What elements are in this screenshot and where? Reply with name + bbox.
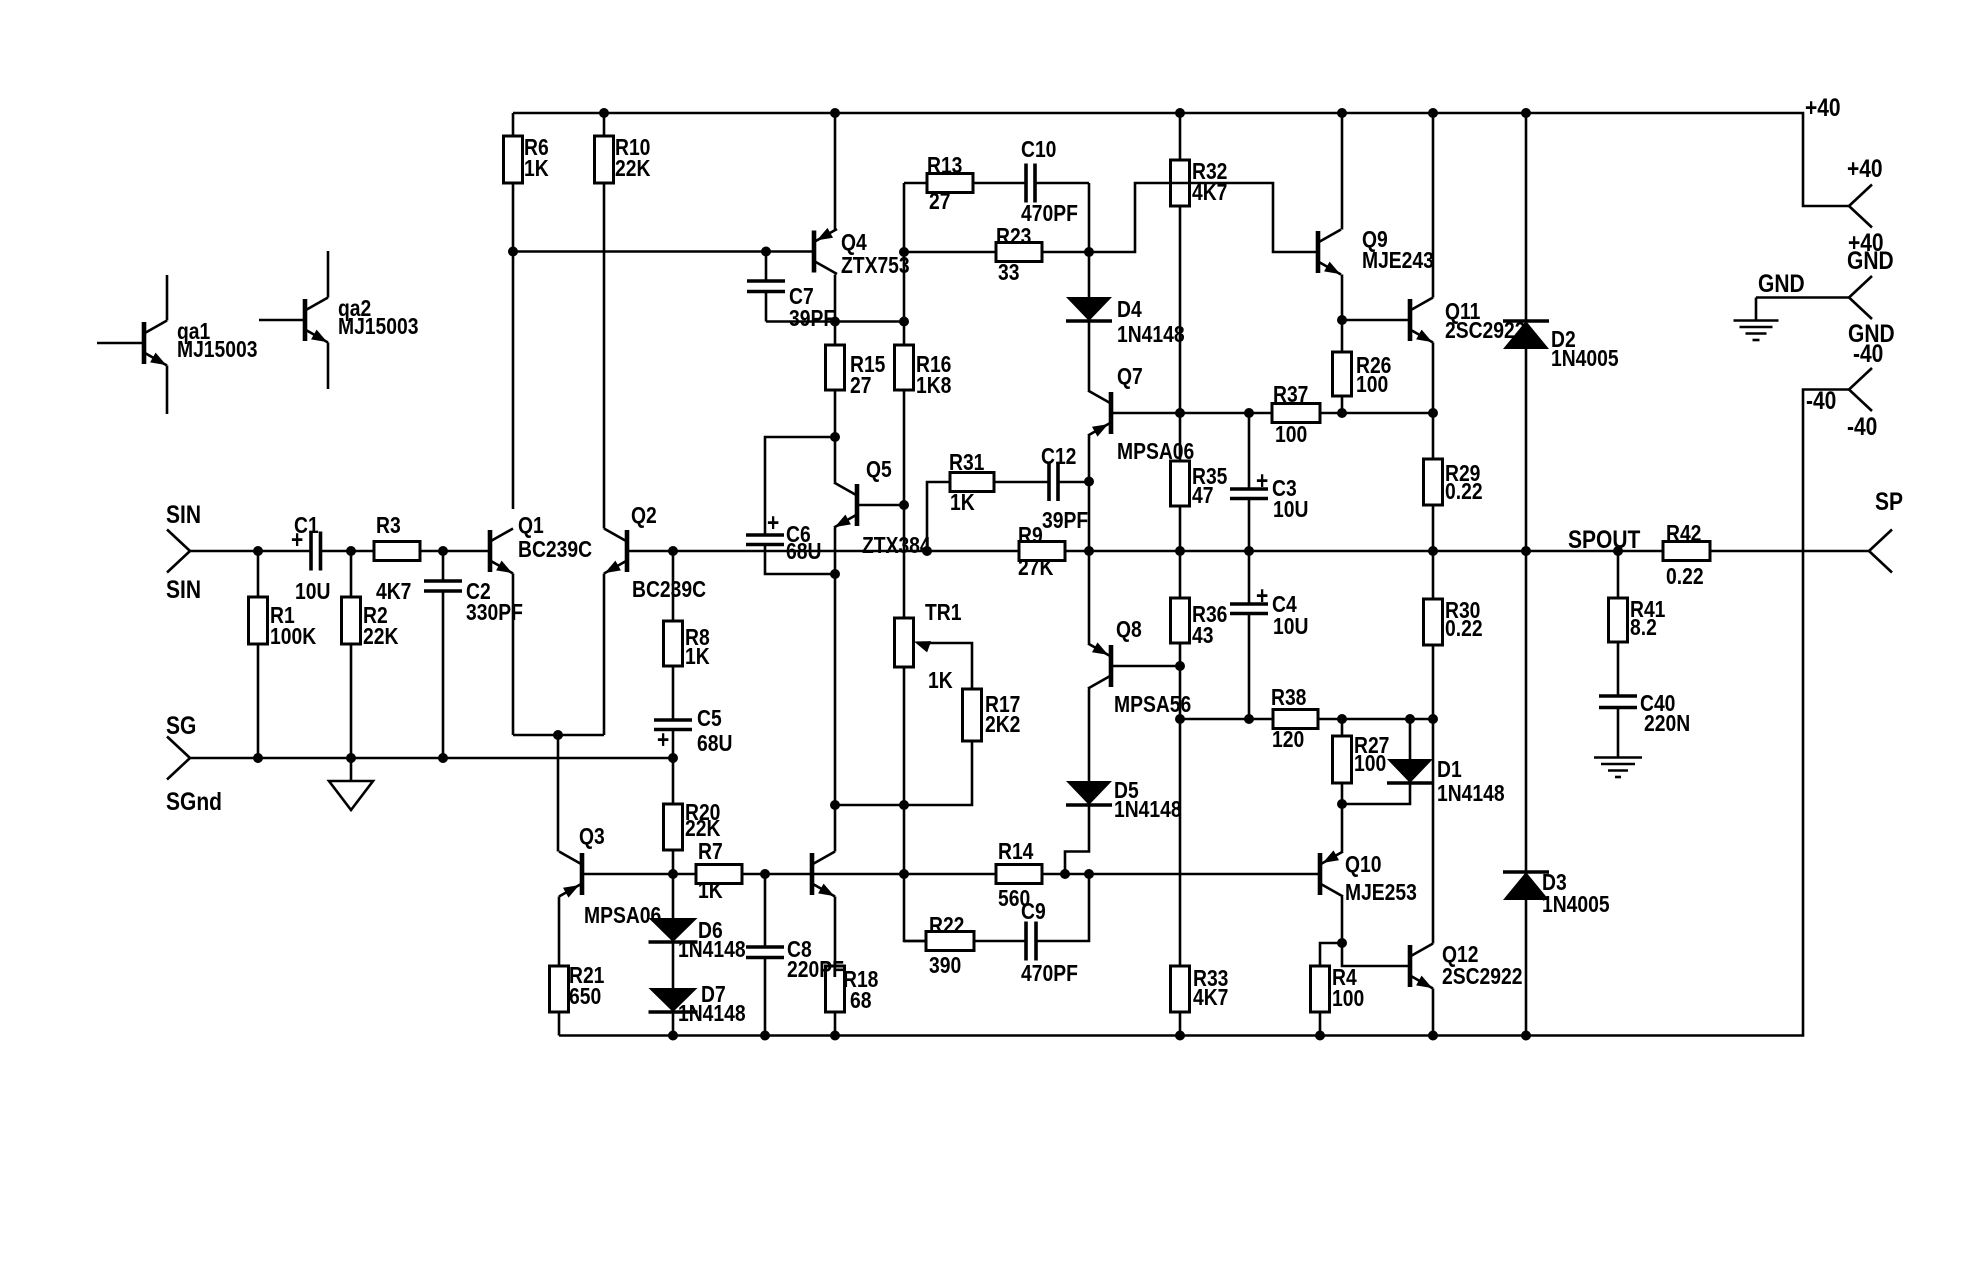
wire C8 bottom: [764, 958, 767, 1036]
wire R30 chain: [1432, 551, 1435, 719]
transistor qa2: [303, 299, 308, 341]
capacitor C9: [1024, 922, 1028, 961]
wire Q11 base line: [1342, 319, 1410, 322]
wire C6 top jog: [765, 437, 835, 535]
junction (766,251.5): [761, 247, 771, 257]
junction (258,758): [253, 753, 263, 763]
svg-text:100: 100: [1275, 423, 1307, 448]
junction (904,874): [899, 869, 909, 879]
junction (604,113): [599, 108, 609, 118]
junction (1089,252): [1084, 247, 1094, 257]
connector SIN: [167, 530, 190, 552]
transistor Q4: [812, 231, 817, 273]
junction (1320,1035.5): [1315, 1031, 1325, 1041]
transistor Q7: [1109, 392, 1114, 434]
svg-text:GND: GND: [1847, 246, 1894, 274]
svg-text:100K: 100K: [270, 625, 317, 650]
diode D4: [1066, 297, 1112, 321]
resistor R17: [963, 689, 982, 741]
wire signal ground stub: [350, 758, 353, 781]
svg-text:27: 27: [850, 374, 871, 399]
wire R10 bottom to Q2 collector: [603, 183, 606, 529]
resistor R7: [696, 865, 742, 884]
resistor R23: [996, 243, 1042, 262]
wire Q11 collector stub: [1432, 113, 1435, 298]
wire Q4 collector stub: [834, 275, 837, 322]
svg-text:0.22: 0.22: [1666, 565, 1704, 590]
svg-text:+: +: [657, 725, 669, 753]
wire R8 chain: [672, 551, 675, 720]
junction (1180,1035.5): [1175, 1031, 1185, 1041]
wire R1: [257, 551, 260, 758]
svg-text:GND: GND: [1758, 269, 1805, 297]
wire R4 jog: [1320, 943, 1342, 966]
trimmer TR1 wiper arrow: [914, 641, 931, 652]
svg-text:SIN: SIN: [166, 500, 201, 528]
connector -40: [1849, 368, 1872, 390]
junction (1180,719): [1175, 714, 1185, 724]
capacitor C3: [1230, 487, 1268, 491]
wire R10 top stub: [603, 113, 606, 136]
svg-text:1N4005: 1N4005: [1551, 347, 1619, 372]
junction (1526,113): [1521, 108, 1531, 118]
wire C10 right riser to D4: [1088, 183, 1091, 297]
svg-text:Q10: Q10: [1345, 853, 1381, 878]
svg-text:100: 100: [1356, 373, 1388, 398]
svg-text:C10: C10: [1021, 138, 1056, 163]
wire Q3 emitter to R21: [558, 897, 561, 967]
svg-text:C12: C12: [1041, 445, 1076, 470]
junction (673,1035.5): [668, 1031, 678, 1041]
transistor Q6: [810, 853, 815, 895]
wire R4 bottom: [1319, 1012, 1322, 1036]
capacitor C8: [746, 945, 784, 949]
svg-text:0.22: 0.22: [1445, 480, 1483, 505]
junction (835,437): [830, 432, 840, 442]
resistor R31: [950, 473, 994, 492]
wire Q7 base / R37 line: [1111, 412, 1433, 415]
resistor R14: [996, 865, 1042, 884]
svg-text:1N4148: 1N4148: [678, 1002, 746, 1027]
svg-text:R31: R31: [949, 451, 985, 476]
svg-text:8.2: 8.2: [1630, 616, 1657, 641]
wire VAS node line: [766, 320, 904, 323]
wire C2 top: [442, 551, 445, 581]
svg-text:220PF: 220PF: [787, 958, 844, 983]
resistor R22: [926, 932, 974, 951]
junction (673,551): [668, 546, 678, 556]
wire Q9 collector stub: [1341, 113, 1344, 230]
resistor R18: [826, 966, 845, 1012]
svg-text:+: +: [1256, 581, 1268, 609]
svg-text:TR1: TR1: [925, 601, 962, 626]
wire C3 bottom: [1248, 499, 1251, 552]
wire Q4 emitter stub: [834, 113, 837, 230]
wire R20 chain: [672, 758, 675, 874]
junction (1342,943): [1337, 938, 1347, 948]
svg-text:SGnd: SGnd: [166, 787, 222, 815]
wire D4 cathode to Q7 collector: [1088, 322, 1091, 391]
wire R27 chain: [1341, 719, 1344, 804]
wire C7 bottom stub: [765, 292, 768, 322]
svg-text:MPSA06: MPSA06: [584, 904, 661, 929]
wire qa1 collector: [166, 275, 169, 321]
junction (1433,551): [1428, 546, 1438, 556]
resistor R21: [550, 966, 569, 1012]
wire GND stub: [1756, 296, 1849, 299]
svg-text:68U: 68U: [697, 732, 732, 757]
svg-text:22K: 22K: [615, 157, 651, 182]
svg-text:1K: 1K: [685, 645, 710, 670]
svg-text:-40: -40: [1853, 339, 1883, 367]
connector GND: [1849, 276, 1872, 298]
resistor R9: [1019, 542, 1065, 561]
resistor R13: [927, 174, 973, 193]
svg-text:22K: 22K: [363, 625, 399, 650]
wire GND down stub: [1755, 298, 1758, 321]
transistor Q12: [1408, 945, 1413, 987]
junction (904,321.5): [899, 317, 909, 327]
wire R21 bottom: [558, 1012, 561, 1036]
connector SP: [1869, 530, 1892, 552]
wire C4 top: [1248, 551, 1251, 604]
junction (443,758): [438, 753, 448, 763]
wire Q12 emitter stub: [1432, 989, 1435, 1036]
svg-text:MJ15003: MJ15003: [177, 338, 258, 363]
svg-text:4K7: 4K7: [376, 580, 411, 605]
junction (904,805): [899, 800, 909, 810]
svg-text:22K: 22K: [685, 817, 721, 842]
svg-text:R3: R3: [376, 514, 401, 539]
svg-text:650: 650: [569, 985, 601, 1010]
wire D2 to D3: [1525, 348, 1528, 872]
capacitor C12: [1047, 462, 1051, 501]
wire Q5 emitter to Q6 collector: [834, 528, 837, 852]
wire R18 bottom: [834, 1012, 837, 1036]
ground symbol GND: [1734, 319, 1779, 322]
wire C12 to Q7 emitter: [1058, 481, 1089, 484]
wire Q1 collector stub: [512, 252, 515, 510]
svg-text:R22: R22: [929, 914, 964, 939]
resistor R37: [1272, 404, 1320, 423]
junction (1089,551): [1084, 546, 1094, 556]
wire qa2 collector: [327, 251, 330, 298]
svg-text:2SC2922: 2SC2922: [1442, 965, 1522, 990]
diode D2: [1503, 319, 1549, 323]
wire Q7 emitter stub: [1088, 436, 1091, 552]
svg-text:R9: R9: [1018, 524, 1043, 549]
resistor R36: [1171, 598, 1190, 643]
wire R16 bottom to TR1: [903, 390, 906, 618]
svg-text:4K7: 4K7: [1193, 986, 1228, 1011]
diode D1: [1387, 759, 1433, 783]
svg-text:43: 43: [1192, 624, 1214, 649]
svg-text:4K7: 4K7: [1192, 181, 1227, 206]
wire Q6 emitter to R18: [834, 897, 837, 967]
wire R2: [350, 551, 353, 758]
junction (1249,551): [1244, 546, 1254, 556]
svg-text:1K8: 1K8: [916, 374, 952, 399]
wire TR1 wiper: [917, 643, 972, 689]
junction (1180,666): [1175, 661, 1185, 671]
transistor Q1: [488, 530, 493, 572]
connector +40: [1849, 185, 1872, 207]
svg-text:47: 47: [1192, 484, 1213, 509]
svg-text:-40: -40: [1806, 386, 1836, 414]
svg-text:Q1: Q1: [518, 514, 544, 539]
svg-text:+: +: [1256, 466, 1268, 494]
wire R22 C9 line left: [904, 940, 1026, 943]
transistor Q5: [855, 484, 860, 526]
connector SG: [167, 737, 190, 759]
svg-text:R14: R14: [998, 840, 1034, 865]
junction (904,252): [899, 247, 909, 257]
svg-text:MPSA06: MPSA06: [1117, 440, 1194, 465]
wire Q1 emitter: [512, 574, 515, 736]
svg-text:D4: D4: [1117, 298, 1142, 323]
wire R41 branch: [1617, 551, 1620, 598]
diode D3: [1503, 870, 1549, 874]
wire R32 to Q7 base: [1179, 206, 1182, 413]
svg-text:Q2: Q2: [631, 504, 657, 529]
svg-text:220N: 220N: [1644, 712, 1690, 737]
junction (1249,719): [1244, 714, 1254, 724]
wire R41 to C40: [1617, 642, 1620, 696]
svg-text:330PF: 330PF: [466, 601, 523, 626]
resistor R30: [1424, 599, 1443, 645]
wire C4 bottom: [1248, 614, 1251, 720]
wire Q3 base line: [582, 873, 673, 876]
svg-text:68U: 68U: [786, 540, 821, 565]
wire D5 jog: [1065, 806, 1089, 874]
wire C3 chain: [1248, 413, 1251, 489]
junction (835,113): [830, 108, 840, 118]
junction (1249,413): [1244, 408, 1254, 418]
junction (1089,481.5): [1084, 477, 1094, 487]
junction (673,874): [668, 869, 678, 879]
junction (1342,320): [1337, 315, 1347, 325]
svg-text:SPOUT: SPOUT: [1568, 525, 1640, 553]
svg-text:120: 120: [1272, 728, 1304, 753]
signal ground symbol: [329, 781, 373, 810]
svg-text:1N4148: 1N4148: [1437, 782, 1505, 807]
wire R36 vertical: [1179, 551, 1182, 666]
capacitor C4: [1230, 602, 1268, 606]
junction (1180,113): [1175, 108, 1185, 118]
wire TR1 bottom to R22 corner: [904, 667, 926, 941]
svg-text:R38: R38: [1271, 686, 1307, 711]
svg-text:MJE253: MJE253: [1345, 881, 1417, 906]
wire D2 anode from rail: [1525, 113, 1528, 321]
wire qa2 emitter: [327, 343, 330, 390]
svg-text:+: +: [291, 525, 303, 553]
resistor R38: [1273, 710, 1318, 729]
resistor R20: [664, 804, 683, 850]
junction (1065,874): [1060, 869, 1070, 879]
junction (1342,413): [1337, 408, 1347, 418]
wire Q9 emitter to R26: [1341, 275, 1344, 353]
junction (1526,1035.5): [1521, 1031, 1531, 1041]
wire bottom rail: [559, 390, 1849, 1036]
wire Q5 base: [857, 504, 904, 507]
wire D7 to rail: [672, 1011, 675, 1036]
wire emitter join: [513, 734, 604, 737]
junction (558,735): [553, 730, 563, 740]
transistor Q10: [1318, 853, 1323, 895]
resistor R32: [1171, 160, 1190, 206]
svg-text:BC239C: BC239C: [632, 578, 706, 603]
wire Q10 emitter stub: [1341, 804, 1344, 852]
svg-text:1N4148: 1N4148: [1117, 323, 1185, 348]
wire R17 tap line: [835, 741, 972, 805]
svg-text:0.22: 0.22: [1445, 617, 1483, 642]
junction (835,1035.5): [830, 1031, 840, 1041]
resistor R4: [1311, 966, 1330, 1012]
svg-text:1K: 1K: [928, 669, 953, 694]
junction (927,551): [922, 546, 932, 556]
wire input line right: [321, 550, 491, 553]
wire C2 bottom: [442, 591, 445, 758]
wire R13/C10 line right: [1035, 182, 1089, 185]
resistor R8: [664, 621, 683, 666]
svg-text:ZTX753: ZTX753: [841, 254, 910, 279]
wire qa1 emitter: [166, 366, 169, 415]
resistor R16: [895, 345, 914, 390]
wire R15 chain: [834, 322, 837, 483]
wire qa2 base: [259, 319, 305, 322]
wire Q12 collector stub: [1432, 719, 1435, 944]
resistor R41: [1609, 598, 1628, 642]
svg-text:R37: R37: [1273, 383, 1308, 408]
wire C9 right riser: [1036, 874, 1089, 941]
wire R36 to R38 to R33: [1179, 666, 1182, 1036]
resistor R10: [595, 136, 614, 183]
svg-text:Q4: Q4: [841, 231, 867, 256]
capacitor C40: [1599, 694, 1637, 698]
junction (351,758): [346, 753, 356, 763]
wire R13 left riser: [903, 183, 906, 345]
resistor R3: [374, 542, 420, 561]
wire +40 rail: [513, 113, 1849, 206]
resistor R1: [249, 597, 268, 644]
svg-text:2K2: 2K2: [985, 713, 1020, 738]
svg-text:R7: R7: [698, 840, 723, 865]
wire C6 bottom jog: [765, 545, 835, 575]
svg-text:D1: D1: [1437, 758, 1462, 783]
svg-text:Q7: Q7: [1117, 365, 1143, 390]
svg-text:68: 68: [850, 989, 872, 1014]
svg-text:MJ15003: MJ15003: [338, 315, 419, 340]
svg-text:Q8: Q8: [1116, 618, 1142, 643]
svg-text:100: 100: [1354, 752, 1386, 777]
resistor R15: [826, 345, 845, 390]
wire main mid line: [627, 550, 1869, 553]
resistor R6: [504, 136, 523, 183]
junction (1089,874): [1084, 869, 1094, 879]
svg-text:10U: 10U: [1273, 615, 1308, 640]
junction (1180,551): [1175, 546, 1185, 556]
svg-text:BC239C: BC239C: [518, 538, 592, 563]
svg-text:C5: C5: [697, 707, 722, 732]
svg-text:+: +: [767, 508, 779, 536]
trimmer TR1: [895, 618, 914, 667]
wire R6 bottom to Q4 base line: [513, 183, 814, 252]
svg-text:MJE243: MJE243: [1362, 249, 1434, 274]
svg-text:1N4005: 1N4005: [1542, 893, 1610, 918]
transistor Q2: [625, 530, 630, 572]
junction (351,551): [346, 546, 356, 556]
wire R13/C10 line left: [904, 182, 1026, 185]
capacitor C5: [654, 718, 692, 722]
junction (443,551): [438, 546, 448, 556]
svg-text:1N4148: 1N4148: [1114, 798, 1182, 823]
wire R26 bottom: [1341, 396, 1344, 413]
svg-text:1K: 1K: [950, 491, 975, 516]
junction (835,321.5): [830, 317, 840, 327]
wire Q10 collector stub: [1341, 897, 1344, 944]
svg-text:Q5: Q5: [866, 458, 892, 483]
wire SGnd rail: [190, 757, 673, 760]
capacitor C6: [746, 533, 784, 537]
svg-text:1K: 1K: [524, 157, 549, 182]
svg-text:SP: SP: [1875, 487, 1903, 515]
svg-text:C9: C9: [1021, 900, 1046, 925]
junction (1433,1035.5): [1428, 1031, 1438, 1041]
svg-text:R13: R13: [927, 154, 963, 179]
junction (673,758): [668, 753, 678, 763]
capacitor C10: [1024, 164, 1028, 203]
transistor Q9: [1316, 231, 1321, 273]
junction (1433,719): [1428, 714, 1438, 724]
resistor R42: [1663, 542, 1710, 561]
resistor R26: [1333, 352, 1352, 396]
svg-text:10U: 10U: [295, 580, 330, 605]
junction (1342,719): [1337, 714, 1347, 724]
wire D1 cathode jog: [1342, 783, 1410, 804]
diode D6: [649, 918, 698, 942]
junction (1342,804): [1337, 799, 1347, 809]
svg-text:39PF: 39PF: [1042, 509, 1088, 534]
resistor R33: [1171, 966, 1190, 1012]
junction (904,505): [899, 500, 909, 510]
svg-text:390: 390: [929, 954, 961, 979]
wire C8 top: [764, 874, 767, 947]
svg-text:10U: 10U: [1273, 498, 1308, 523]
junction (835,805): [830, 800, 840, 810]
svg-text:SIN: SIN: [166, 575, 201, 603]
svg-text:27: 27: [929, 190, 950, 215]
diode D5: [1066, 781, 1112, 805]
svg-text:R23: R23: [996, 225, 1032, 250]
wire D1 anode: [1409, 719, 1412, 759]
junction (1410,719): [1405, 714, 1415, 724]
svg-text:27K: 27K: [1018, 556, 1054, 581]
svg-text:100: 100: [1332, 987, 1364, 1012]
junction (513,251.5): [508, 247, 518, 257]
wire C40 to ground: [1617, 708, 1620, 758]
transistor Q3: [580, 853, 585, 895]
resistor R2: [342, 597, 361, 644]
svg-text:33: 33: [998, 261, 1020, 286]
svg-text:SG: SG: [166, 711, 196, 739]
wire tail down to Q3: [557, 735, 560, 852]
svg-text:Q3: Q3: [579, 825, 605, 850]
junction (835,574): [830, 569, 840, 579]
wire D3 to rail: [1525, 899, 1528, 1036]
wire qa1 base: [97, 342, 144, 345]
wire D6 D7 chain: [672, 874, 675, 918]
svg-text:39PF: 39PF: [789, 307, 835, 332]
